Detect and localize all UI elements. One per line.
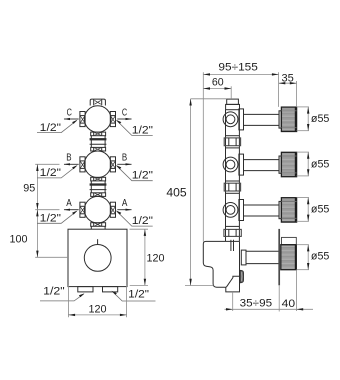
leader A left bbox=[37, 211, 77, 223]
svg-text:B: B bbox=[122, 153, 128, 164]
right dim 120 bbox=[130, 229, 149, 285]
leader left foot bbox=[40, 294, 84, 301]
foot leaders bbox=[40, 291, 156, 301]
svg-text:A: A bbox=[122, 198, 128, 209]
svg-text:1/2": 1/2" bbox=[40, 122, 61, 134]
side pipe column bbox=[225, 110, 227, 242]
thermostat stem bbox=[246, 250, 279, 252]
ext line at valve A center bbox=[35, 209, 59, 211]
valve B left union fitting bbox=[80, 157, 85, 172]
side union C-B bbox=[224, 138, 240, 148]
dim 35 bbox=[279, 81, 297, 107]
svg-text:1/2": 1/2" bbox=[40, 213, 61, 225]
svg-text:35÷95: 35÷95 bbox=[240, 297, 272, 309]
arrow 100 top bbox=[36, 210, 38, 217]
mixer knob circle bbox=[84, 245, 111, 272]
knob B (knurled) bbox=[281, 152, 296, 176]
svg-text:C: C bbox=[122, 107, 127, 118]
dim ø55 thermostat knob bbox=[297, 245, 309, 270]
dim ø55 knob B bbox=[297, 152, 309, 176]
arrow 100 bottom bbox=[36, 251, 38, 258]
ext line at valve B center bbox=[35, 163, 59, 165]
pipe union between B and A bbox=[90, 181, 107, 193]
svg-text:A: A bbox=[66, 198, 72, 209]
svg-text:100: 100 bbox=[10, 234, 28, 246]
cartridge flange bbox=[241, 250, 246, 265]
svg-text:1/2": 1/2" bbox=[132, 215, 153, 227]
svg-text:ø55: ø55 bbox=[311, 204, 330, 216]
svg-text:35: 35 bbox=[282, 73, 294, 85]
side valve A bbox=[223, 200, 281, 227]
dim 405 bbox=[185, 99, 227, 286]
leader right foot bbox=[112, 291, 155, 301]
svg-text:95: 95 bbox=[23, 183, 35, 195]
valve C bottom nut band bbox=[91, 132, 106, 136]
svg-text:60: 60 bbox=[212, 76, 224, 88]
arrow 95 bottom bbox=[36, 203, 38, 210]
svg-text:ø55: ø55 bbox=[311, 158, 330, 170]
valve B body circle bbox=[84, 151, 111, 178]
svg-text:120: 120 bbox=[89, 304, 107, 316]
svg-text:ø55: ø55 bbox=[311, 113, 330, 125]
dim 60 bbox=[203, 86, 231, 99]
leader B right bbox=[117, 166, 153, 181]
knob A (knurled) bbox=[281, 198, 296, 222]
outlet boss chamfer bbox=[226, 276, 239, 287]
svg-text:40: 40 bbox=[282, 298, 296, 310]
flow arrows + letter labels bbox=[64, 107, 132, 211]
1/2" leader labels, valve rows (left) bbox=[37, 121, 153, 227]
valve C left union fitting bbox=[80, 112, 85, 127]
svg-text:1/2": 1/2" bbox=[43, 285, 65, 297]
side valve C bbox=[223, 109, 281, 136]
leader arrowheads right rows bbox=[116, 120, 121, 124]
side valve B bbox=[223, 154, 281, 181]
dim ø55 knob A bbox=[297, 198, 309, 222]
arrowhead left foot bbox=[79, 293, 85, 297]
outlet fitting (dark) bbox=[240, 270, 243, 283]
thermostat knob (knurled) bbox=[281, 245, 297, 270]
ext line at mixer knob center bbox=[35, 256, 68, 258]
mixer body (side) bbox=[203, 240, 279, 292]
bottom dim 120 bbox=[68, 285, 126, 317]
dim ø55 knob C bbox=[297, 107, 309, 131]
svg-text:405: 405 bbox=[166, 186, 187, 200]
valve C body circle bbox=[84, 106, 111, 133]
valve A right union fitting bbox=[110, 202, 115, 217]
svg-text:1/2": 1/2" bbox=[132, 170, 153, 182]
arrow 95 top bbox=[36, 164, 38, 171]
valve B right union fitting bbox=[110, 157, 115, 172]
side union B-A bbox=[224, 183, 240, 193]
valve B top nut band bbox=[91, 147, 106, 151]
vertical dim line 95/100 bbox=[36, 164, 38, 257]
valve B bottom nut band bbox=[91, 177, 106, 181]
right outlet foot bbox=[103, 287, 118, 292]
valve C right union fitting bbox=[110, 112, 115, 127]
leader C right bbox=[117, 121, 153, 136]
dim 95÷155 bbox=[203, 72, 278, 241]
wall plate line bbox=[278, 229, 280, 285]
bottom chain dims 35÷95 and 40 bbox=[225, 270, 314, 312]
valve A bottom nut band bbox=[91, 223, 106, 227]
side union below A bbox=[224, 229, 241, 236]
top end cap fitting above valve C bbox=[90, 99, 105, 105]
svg-text:ø55: ø55 bbox=[311, 251, 330, 263]
leader B left bbox=[37, 166, 77, 178]
cartridge detail lines bbox=[230, 240, 232, 251]
pipe union between C and B bbox=[90, 136, 107, 148]
svg-text:120: 120 bbox=[147, 253, 165, 265]
svg-text:1/2": 1/2" bbox=[128, 289, 149, 301]
top cap bbox=[227, 99, 239, 104]
knob index tick bbox=[97, 239, 99, 244]
leader C left bbox=[37, 121, 77, 133]
valve A left union fitting bbox=[80, 202, 85, 217]
leader arrowheads left rows bbox=[72, 120, 77, 124]
short pipe into mixer box bbox=[91, 226, 105, 229]
arrowhead right foot bbox=[112, 291, 117, 295]
valve A body circle bbox=[84, 196, 111, 223]
svg-text:B: B bbox=[66, 153, 72, 164]
knob C (knurled) bbox=[281, 107, 296, 131]
thermostatic mixer box body bbox=[68, 229, 127, 286]
left outlet foot bbox=[78, 287, 93, 292]
leader A right bbox=[117, 211, 153, 226]
valve A top nut band bbox=[91, 193, 106, 197]
thermostat knob cap bbox=[282, 237, 297, 244]
svg-text:1/2": 1/2" bbox=[132, 124, 153, 136]
svg-text:C: C bbox=[67, 107, 72, 118]
svg-text:95÷155: 95÷155 bbox=[218, 61, 258, 73]
svg-text:1/2": 1/2" bbox=[40, 167, 61, 179]
